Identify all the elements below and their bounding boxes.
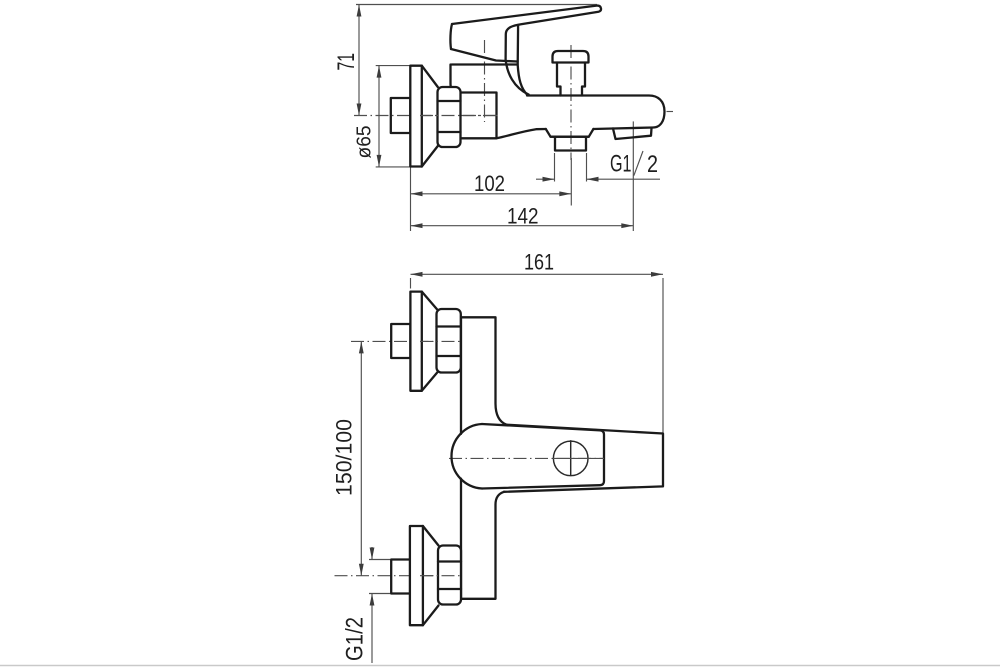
svg-text:2: 2	[647, 151, 658, 178]
svg-text:161: 161	[524, 250, 554, 275]
svg-text:G1/2: G1/2	[342, 617, 369, 661]
svg-text:142: 142	[507, 204, 539, 229]
svg-text:150/100: 150/100	[332, 419, 357, 496]
svg-text:71: 71	[333, 53, 360, 71]
svg-text:ø65: ø65	[353, 126, 376, 159]
svg-text:G1: G1	[610, 151, 632, 178]
svg-text:102: 102	[474, 171, 505, 196]
